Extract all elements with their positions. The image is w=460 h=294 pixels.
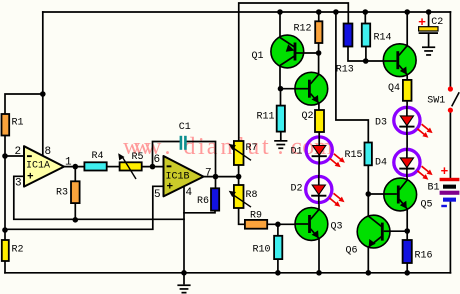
svg-text:D1: D1 xyxy=(291,147,303,158)
svg-text:D4: D4 xyxy=(375,158,387,169)
svg-text:Q1: Q1 xyxy=(252,51,264,62)
svg-text:R8: R8 xyxy=(246,190,258,201)
svg-text:Q5: Q5 xyxy=(421,200,433,211)
svg-text:4: 4 xyxy=(186,187,193,199)
svg-text:Q4: Q4 xyxy=(388,83,400,94)
svg-text:Q3: Q3 xyxy=(331,222,343,233)
svg-text:5: 5 xyxy=(154,189,161,201)
svg-text:IC1A: IC1A xyxy=(26,161,50,172)
svg-text:2: 2 xyxy=(15,146,22,158)
svg-text:R15: R15 xyxy=(345,150,363,161)
svg-text:R2: R2 xyxy=(12,245,24,256)
svg-text:6: 6 xyxy=(154,154,161,166)
svg-text:D3: D3 xyxy=(375,118,387,129)
svg-text:R1: R1 xyxy=(12,118,24,129)
svg-text:R3: R3 xyxy=(56,187,68,198)
svg-text:+: + xyxy=(167,182,174,194)
svg-text:R14: R14 xyxy=(374,33,392,44)
svg-text:8: 8 xyxy=(45,146,52,158)
svg-text:C1: C1 xyxy=(179,122,191,133)
svg-text:R10: R10 xyxy=(253,245,271,256)
svg-text:7: 7 xyxy=(205,168,212,180)
svg-text:D2: D2 xyxy=(291,184,303,195)
svg-text:R5: R5 xyxy=(132,152,144,163)
svg-text:+: + xyxy=(418,14,426,29)
svg-text:C2: C2 xyxy=(431,17,443,28)
svg-text:R12: R12 xyxy=(294,23,312,34)
svg-text:R4: R4 xyxy=(92,151,104,162)
svg-text:B1: B1 xyxy=(428,183,440,194)
svg-text:R6: R6 xyxy=(197,196,209,207)
svg-text:Q2: Q2 xyxy=(302,111,314,122)
svg-text:R11: R11 xyxy=(257,112,275,123)
svg-text:R7: R7 xyxy=(246,143,258,154)
svg-text:SW1: SW1 xyxy=(427,95,445,106)
svg-text:+: + xyxy=(27,172,34,184)
svg-text:3: 3 xyxy=(15,177,22,189)
svg-text:R13: R13 xyxy=(336,65,354,76)
svg-text:R16: R16 xyxy=(415,251,433,262)
svg-text:+: + xyxy=(441,163,449,178)
svg-text:1: 1 xyxy=(65,157,72,169)
svg-text:Q6: Q6 xyxy=(346,246,358,257)
svg-text:R9: R9 xyxy=(250,210,262,221)
